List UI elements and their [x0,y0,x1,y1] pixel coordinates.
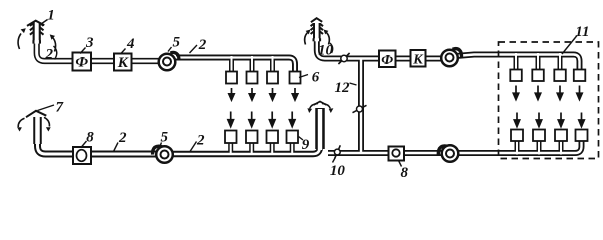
svg-text:7: 7 [56,100,64,116]
svg-text:2: 2 [198,37,207,53]
svg-text:10: 10 [330,163,346,179]
svg-text:12: 12 [335,80,351,96]
svg-text:К: К [117,55,129,71]
svg-text:4: 4 [126,36,135,52]
svg-text:5: 5 [173,35,181,51]
svg-text:10: 10 [318,43,334,59]
svg-text:2: 2 [196,133,205,149]
svg-text:К: К [412,53,424,68]
svg-text:2: 2 [45,47,54,63]
svg-text:3: 3 [85,35,94,51]
svg-text:11: 11 [575,24,589,40]
svg-text:Ф: Ф [75,55,88,71]
svg-text:6: 6 [312,70,320,86]
svg-text:Ф: Ф [381,53,393,68]
svg-text:2: 2 [118,130,127,146]
svg-text:5: 5 [160,130,168,146]
svg-text:8: 8 [400,165,408,181]
svg-text:8: 8 [86,130,94,146]
svg-text:9: 9 [302,137,310,153]
svg-text:1: 1 [47,8,55,24]
